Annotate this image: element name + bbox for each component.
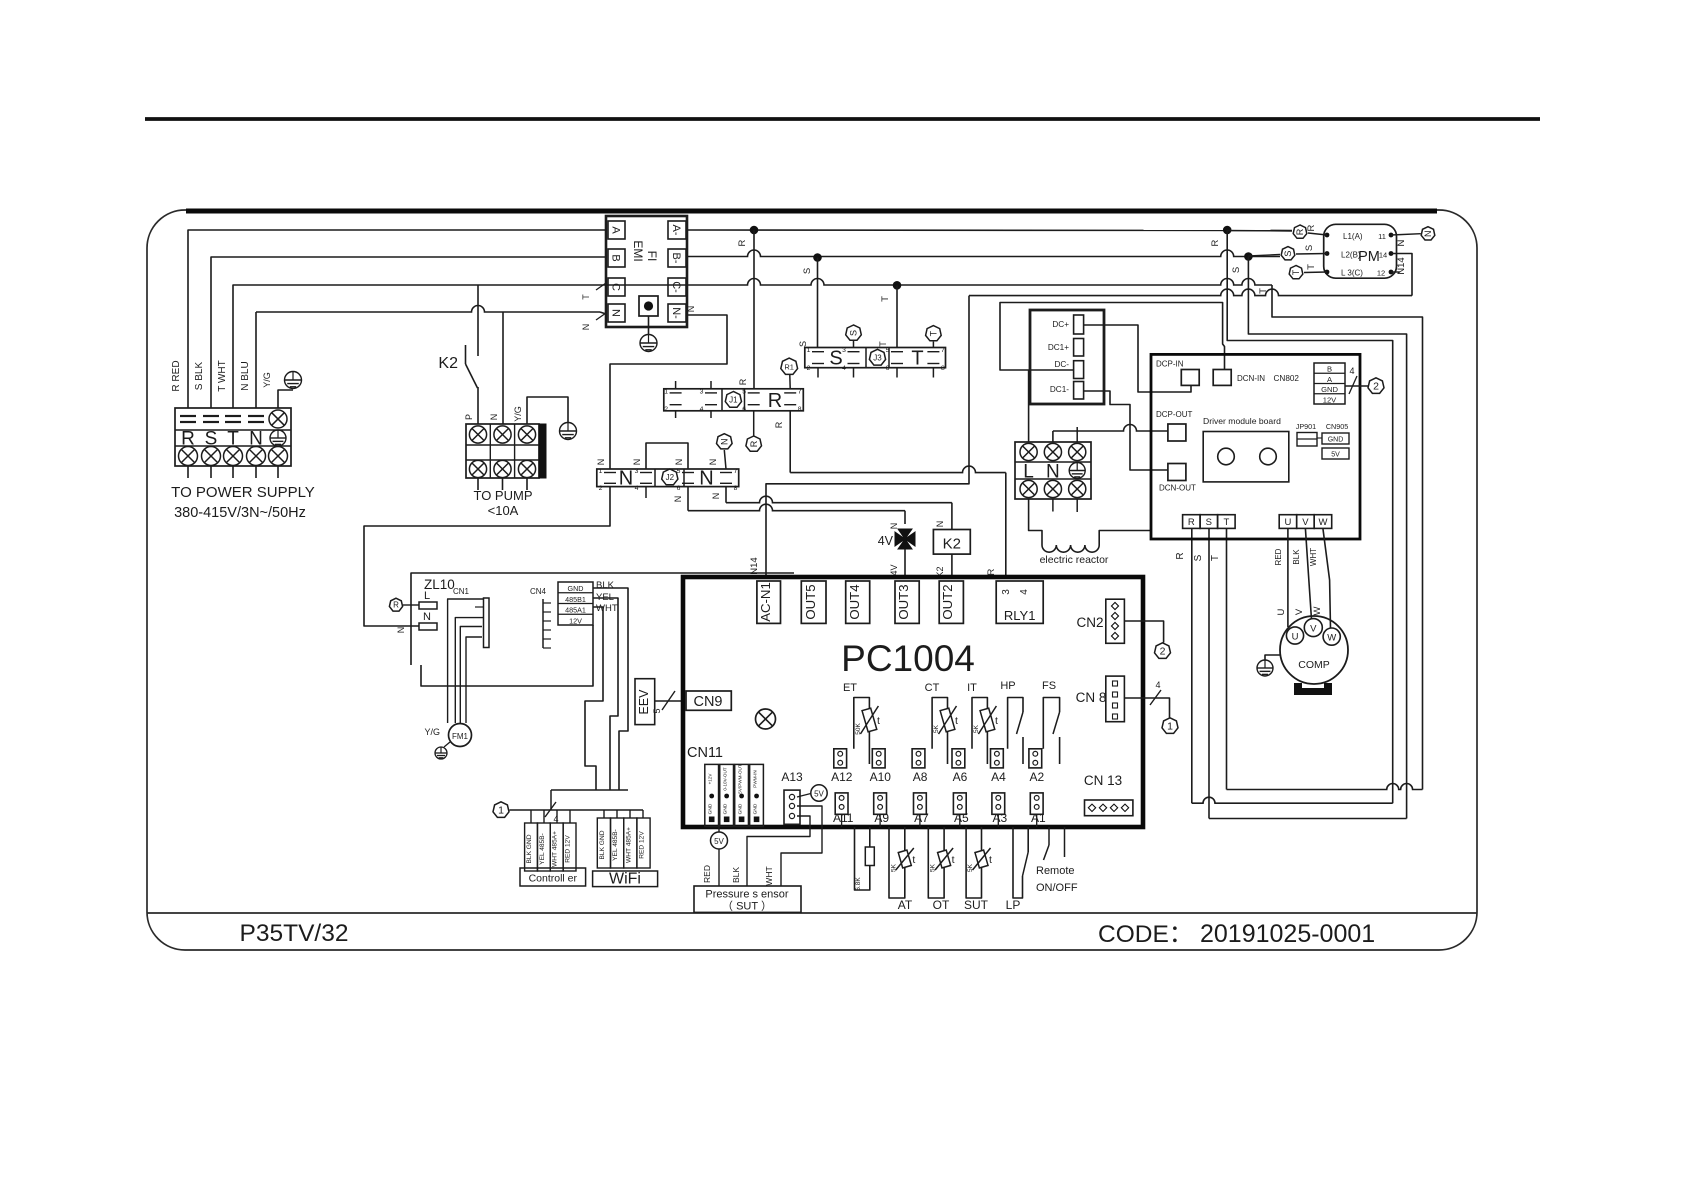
svg-text:N: N bbox=[711, 493, 721, 500]
tag S bbox=[1281, 247, 1295, 260]
wire J2 pin8 (N) bbox=[725, 487, 727, 503]
svg-text:ON/OFF: ON/OFF bbox=[1036, 882, 1078, 894]
svg-text:50K: 50K bbox=[855, 723, 862, 735]
svg-text:5V: 5V bbox=[714, 837, 724, 846]
svg-text:RED: RED bbox=[1274, 548, 1283, 565]
slash 5 bbox=[662, 691, 675, 710]
wire CN2 to ref 2 bbox=[1124, 621, 1163, 643]
svg-text:GND: GND bbox=[1321, 385, 1338, 394]
ground PE1 bbox=[285, 372, 302, 389]
wire stubs bottom bbox=[675, 411, 677, 418]
connector OUT5 bbox=[801, 581, 826, 623]
svg-text:6: 6 bbox=[742, 406, 746, 413]
svg-text:t: t bbox=[989, 854, 992, 866]
svg-text:4V: 4V bbox=[889, 564, 899, 575]
top rule line bbox=[145, 117, 1540, 121]
svg-text:DCN-IN: DCN-IN bbox=[1237, 374, 1265, 383]
wire J2 pin2 to ZL10 N bbox=[364, 487, 610, 626]
wire bbox=[187, 466, 189, 478]
svg-text:OUT5: OUT5 bbox=[803, 584, 818, 619]
svg-text:LP: LP bbox=[1006, 898, 1021, 912]
wire S phase bbox=[687, 250, 1280, 256]
svg-text:CT: CT bbox=[925, 682, 940, 694]
svg-text:A: A bbox=[610, 226, 622, 234]
svg-text:12V: 12V bbox=[569, 616, 582, 625]
svg-text:WiFi: WiFi bbox=[609, 871, 641, 888]
svg-text:4: 4 bbox=[635, 485, 639, 492]
wire N bbox=[255, 312, 257, 408]
svg-text:V: V bbox=[1310, 624, 1317, 635]
svg-text:5K: 5K bbox=[933, 724, 940, 733]
svg-text:Y/G: Y/G bbox=[424, 727, 440, 737]
svg-text:A10: A10 bbox=[870, 770, 892, 784]
svg-text:8: 8 bbox=[941, 365, 945, 372]
EMI ground terminal bbox=[639, 296, 658, 316]
svg-text:S: S bbox=[1283, 251, 1293, 257]
svg-text:2: 2 bbox=[599, 485, 603, 492]
svg-text:RLY1: RLY1 bbox=[1004, 608, 1036, 623]
svg-text:8: 8 bbox=[798, 406, 802, 413]
svg-text:W: W bbox=[1312, 606, 1323, 615]
svg-text:5V: 5V bbox=[1331, 452, 1340, 459]
svg-text:N14: N14 bbox=[749, 557, 760, 574]
svg-text:4: 4 bbox=[842, 365, 846, 372]
wire R phase bbox=[687, 229, 1292, 232]
tag R bbox=[389, 598, 402, 611]
svg-text:A5: A5 bbox=[954, 811, 969, 825]
compressor COMP bbox=[1280, 616, 1348, 684]
svg-text:HP: HP bbox=[1000, 680, 1015, 692]
switch LP bbox=[1013, 827, 1023, 898]
svg-text:R: R bbox=[1175, 552, 1186, 559]
svg-text:WHT 485A+: WHT 485A+ bbox=[625, 827, 632, 863]
wire CN8 to ref 1 bbox=[1124, 698, 1169, 718]
connector A7 bbox=[914, 793, 927, 814]
svg-text:A8: A8 bbox=[913, 770, 928, 784]
svg-text:U: U bbox=[1285, 517, 1292, 528]
svg-text:N: N bbox=[489, 414, 499, 421]
svg-text:SUT: SUT bbox=[964, 898, 989, 912]
svg-text:YEL 485B-: YEL 485B- bbox=[539, 833, 546, 865]
svg-text:A1: A1 bbox=[1031, 811, 1046, 825]
svg-text:A3: A3 bbox=[993, 811, 1008, 825]
terminal block L N E bbox=[1015, 442, 1091, 499]
comm bus wire bbox=[510, 809, 644, 811]
svg-text:5: 5 bbox=[677, 468, 681, 475]
wire T bbox=[233, 285, 606, 408]
svg-text:7: 7 bbox=[798, 388, 802, 395]
svg-text:U: U bbox=[1292, 632, 1299, 643]
svg-text:N: N bbox=[889, 523, 899, 530]
svg-text:JP901: JP901 bbox=[1296, 422, 1316, 431]
svg-text:GND: GND bbox=[753, 803, 759, 814]
connector A4 bbox=[991, 749, 1004, 768]
svg-text:2: 2 bbox=[807, 365, 811, 372]
wire DC1- to DCN-OUT bbox=[1084, 391, 1168, 470]
connector AC-N1 bbox=[757, 581, 781, 623]
wire BLK bbox=[593, 588, 628, 790]
svg-text:S: S bbox=[798, 341, 808, 347]
wire R to pin5 bbox=[753, 230, 755, 389]
svg-text:1: 1 bbox=[807, 347, 811, 354]
svg-text:A12: A12 bbox=[831, 770, 853, 784]
terminal DCN-IN bbox=[1213, 370, 1231, 386]
wire pin12 stub bbox=[1391, 271, 1400, 273]
svg-text:A-: A- bbox=[670, 225, 682, 236]
controller pin stubs bbox=[530, 810, 532, 823]
svg-text:CN11: CN11 bbox=[687, 745, 723, 761]
node S junction 2 bbox=[1244, 252, 1253, 261]
lamp symbol bbox=[756, 709, 776, 729]
svg-text:WHT: WHT bbox=[596, 603, 618, 614]
svg-text:B: B bbox=[610, 254, 622, 261]
svg-text:T: T bbox=[929, 330, 939, 336]
svg-text:T: T bbox=[878, 341, 888, 347]
svg-text:R: R bbox=[768, 390, 782, 412]
svg-text:5V/PWM-OUT: 5V/PWM-OUT bbox=[738, 764, 743, 794]
svg-text:R: R bbox=[774, 421, 784, 428]
svg-text:3: 3 bbox=[842, 347, 846, 354]
pressure sensor box bbox=[694, 886, 801, 912]
stub N bottom bbox=[1052, 499, 1054, 512]
svg-text:5K: 5K bbox=[930, 863, 937, 872]
svg-text:AC-N1: AC-N1 bbox=[758, 582, 773, 622]
svg-text:6.8K: 6.8K bbox=[855, 877, 862, 891]
svg-text:N-: N- bbox=[670, 307, 682, 319]
wire 4V to OUT3 bbox=[904, 549, 906, 577]
svg-text:PM: PM bbox=[1358, 249, 1380, 265]
wire S to pin1 bbox=[817, 258, 819, 348]
wire U bbox=[1287, 528, 1289, 627]
wire S down right nest bbox=[1248, 257, 1406, 819]
svg-text:BLK GND: BLK GND bbox=[599, 830, 606, 859]
svg-text:Y/G: Y/G bbox=[513, 406, 523, 422]
svg-text:V: V bbox=[1302, 517, 1309, 528]
wire K2 coil to OUT2 bbox=[951, 554, 953, 577]
wire bbox=[648, 316, 650, 335]
svg-text:R1: R1 bbox=[784, 362, 794, 371]
wire R contactor pin8 out bbox=[789, 411, 791, 473]
connector A3 bbox=[992, 793, 1005, 814]
wire YEL bbox=[593, 598, 618, 790]
connector OUT2 bbox=[939, 581, 963, 623]
pump stubs bbox=[477, 478, 479, 490]
svg-text:CN802: CN802 bbox=[1274, 374, 1300, 383]
wire J2 pin6 (N) bbox=[687, 487, 689, 511]
tag R bbox=[1293, 225, 1307, 238]
svg-text:20191025-0001: 20191025-0001 bbox=[1200, 920, 1375, 948]
5V circle bbox=[811, 785, 827, 801]
ref tag 1 bbox=[493, 802, 509, 818]
wire bbox=[232, 466, 234, 478]
wire stubs row2 to edge bbox=[841, 814, 843, 827]
svg-text:N: N bbox=[396, 627, 406, 634]
wire K2 to T bbox=[477, 285, 479, 356]
svg-text:RED 12V: RED 12V bbox=[565, 835, 572, 863]
connector A11 bbox=[835, 793, 848, 814]
wire stub bbox=[853, 368, 855, 378]
fan wires bbox=[448, 599, 484, 723]
svg-text:BLK: BLK bbox=[596, 580, 615, 591]
svg-text:L: L bbox=[1023, 462, 1034, 483]
connector WiFi bbox=[597, 818, 610, 868]
svg-text:N: N bbox=[1423, 230, 1433, 237]
connector RLY1 bbox=[996, 581, 1043, 623]
svg-text:DCN-OUT: DCN-OUT bbox=[1159, 484, 1196, 493]
svg-text:5K: 5K bbox=[890, 863, 897, 872]
connector CN9 bbox=[686, 691, 731, 710]
sensor SUT bbox=[966, 827, 981, 898]
ground PE2 bbox=[640, 335, 657, 352]
resistor 6.8K bbox=[855, 827, 870, 890]
svg-text:CN9: CN9 bbox=[693, 694, 722, 710]
svg-text:S: S bbox=[829, 348, 842, 370]
svg-text:N: N bbox=[1396, 239, 1407, 246]
svg-text:DC+: DC+ bbox=[1052, 320, 1069, 329]
ref tag 2 bbox=[1155, 643, 1171, 659]
svg-text:DC-: DC- bbox=[1054, 360, 1069, 369]
svg-text:B-: B- bbox=[670, 253, 682, 264]
svg-text:Controll er: Controll er bbox=[529, 873, 578, 885]
svg-text:J1: J1 bbox=[729, 396, 738, 405]
svg-text:4: 4 bbox=[700, 406, 704, 413]
svg-text:OUT4: OUT4 bbox=[847, 584, 862, 619]
svg-text:4: 4 bbox=[1019, 589, 1030, 595]
svg-text:N: N bbox=[610, 309, 622, 317]
svg-text:t: t bbox=[952, 854, 955, 866]
svg-text:GND: GND bbox=[1328, 437, 1344, 444]
svg-text:OUT2: OUT2 bbox=[940, 584, 955, 619]
node S junction bbox=[813, 253, 822, 262]
svg-text:N: N bbox=[720, 438, 730, 445]
svg-text:N: N bbox=[674, 459, 684, 466]
svg-text:t: t bbox=[912, 854, 915, 866]
stub pin4 bbox=[645, 487, 647, 498]
5V circle below bbox=[711, 832, 728, 849]
svg-text:N: N bbox=[423, 611, 431, 623]
electric reactor coil bbox=[1042, 545, 1099, 552]
svg-text:K2: K2 bbox=[943, 536, 961, 553]
wire Y/G to ground bbox=[278, 390, 293, 408]
bus upper wire bbox=[551, 789, 628, 791]
ground FM1 bbox=[435, 747, 447, 759]
node T junction bbox=[893, 281, 902, 290]
svg-text:2: 2 bbox=[1373, 381, 1379, 393]
wire bbox=[210, 466, 212, 478]
svg-text:+12V: +12V bbox=[708, 773, 713, 785]
terminal block XT1 TO POWER SUPPLY bbox=[175, 408, 291, 466]
EMI filter FI bbox=[606, 216, 687, 327]
svg-text:485B1: 485B1 bbox=[565, 595, 586, 604]
sensor AT bbox=[889, 827, 905, 898]
valve EEV bbox=[635, 679, 655, 725]
svg-text:FI: FI bbox=[645, 251, 659, 262]
ref tag 1b bbox=[1162, 718, 1178, 734]
connector OUT4 bbox=[846, 581, 870, 623]
svg-text:N BLU: N BLU bbox=[240, 361, 251, 390]
svg-text:TO PUMP: TO PUMP bbox=[474, 488, 533, 503]
tag T bbox=[1289, 266, 1303, 279]
svg-text:R: R bbox=[749, 440, 759, 447]
svg-text:RED 12V: RED 12V bbox=[639, 831, 646, 859]
svg-text:CN2: CN2 bbox=[1076, 615, 1103, 630]
svg-text:3: 3 bbox=[700, 388, 704, 395]
svg-text:N: N bbox=[1046, 462, 1060, 483]
svg-text:PC1004: PC1004 bbox=[841, 638, 975, 679]
svg-text:J2: J2 bbox=[666, 473, 675, 482]
diagram border bbox=[147, 210, 1477, 950]
wire T bottom return bbox=[1227, 784, 1423, 790]
connector A8 bbox=[912, 749, 925, 768]
svg-text:Remote: Remote bbox=[1036, 865, 1075, 877]
wire L to reactor bbox=[1029, 499, 1042, 545]
svg-text:N: N bbox=[596, 459, 606, 466]
tick T input bbox=[596, 283, 606, 290]
svg-text:P35TV/32: P35TV/32 bbox=[240, 920, 349, 947]
svg-text:0-10V-OUT: 0-10V-OUT bbox=[723, 767, 728, 790]
wire stub bbox=[932, 368, 934, 378]
svg-text:FS: FS bbox=[1042, 680, 1056, 692]
svg-text:T WHT: T WHT bbox=[217, 360, 228, 391]
wire WHT bbox=[585, 607, 603, 790]
svg-text:4: 4 bbox=[1155, 680, 1160, 690]
wire N14 from PM bbox=[969, 289, 1412, 296]
svg-text:K2: K2 bbox=[438, 355, 458, 372]
svg-text:t: t bbox=[877, 715, 880, 727]
svg-text:CN 8: CN 8 bbox=[1076, 690, 1107, 705]
sensor OT bbox=[928, 827, 944, 898]
svg-text:12: 12 bbox=[1377, 269, 1385, 278]
svg-text:AT: AT bbox=[898, 898, 913, 912]
wire V bbox=[1305, 528, 1311, 619]
svg-text:CN905: CN905 bbox=[1326, 422, 1348, 431]
wire N up to DCP-OUT bbox=[1052, 431, 1054, 442]
contactor J1 R block bbox=[664, 389, 804, 411]
svg-text:1: 1 bbox=[599, 468, 603, 475]
svg-text:OT: OT bbox=[933, 898, 950, 912]
svg-text:B: B bbox=[1327, 365, 1332, 374]
svg-text:1: 1 bbox=[498, 805, 504, 817]
svg-text:N: N bbox=[581, 324, 591, 331]
svg-text:BLK: BLK bbox=[1292, 549, 1301, 565]
wire K2 to pump P bbox=[477, 387, 479, 424]
svg-text:S: S bbox=[849, 330, 859, 336]
svg-text:380-415V/3N~/50Hz: 380-415V/3N~/50Hz bbox=[174, 505, 306, 521]
COMP base bbox=[1294, 688, 1332, 695]
svg-text:14: 14 bbox=[1379, 251, 1387, 260]
svg-text:FM1: FM1 bbox=[452, 732, 469, 741]
svg-text:N: N bbox=[935, 521, 945, 528]
svg-text:R: R bbox=[1306, 224, 1317, 231]
svg-text:R: R bbox=[1210, 239, 1221, 246]
svg-text:S: S bbox=[1193, 554, 1204, 561]
wire W bbox=[1323, 528, 1331, 628]
svg-text:V: V bbox=[1294, 608, 1305, 615]
wire EMI N- to J2 pin1 bbox=[610, 315, 727, 469]
svg-text:R: R bbox=[393, 601, 399, 610]
svg-text:GND: GND bbox=[738, 803, 744, 814]
wire 12V bbox=[421, 625, 593, 686]
svg-text:485A1: 485A1 bbox=[565, 606, 586, 615]
svg-text:2: 2 bbox=[1160, 646, 1166, 658]
svg-text:J3: J3 bbox=[873, 353, 882, 362]
svg-text:<10A: <10A bbox=[488, 503, 519, 518]
svg-text:R: R bbox=[737, 239, 748, 246]
terminal DCN-OUT bbox=[1168, 464, 1186, 481]
connector A10 bbox=[872, 749, 885, 768]
svg-text:A6: A6 bbox=[953, 770, 968, 784]
svg-text:11: 11 bbox=[1378, 232, 1386, 241]
wire DC- to DCN-IN bbox=[1000, 303, 1225, 371]
module ZL10 bbox=[411, 573, 794, 665]
connector A1 bbox=[1030, 793, 1043, 814]
bus slash 4 bbox=[545, 802, 556, 817]
svg-text:R: R bbox=[1295, 228, 1305, 235]
svg-text:A9: A9 bbox=[874, 811, 889, 825]
svg-text:P: P bbox=[464, 414, 474, 420]
svg-text:N: N bbox=[619, 468, 633, 490]
connector A6 bbox=[952, 749, 965, 768]
svg-text:A4: A4 bbox=[991, 770, 1006, 784]
svg-text:5K: 5K bbox=[973, 724, 980, 733]
fan motor FM1 bbox=[449, 724, 472, 747]
svg-text:S: S bbox=[1304, 245, 1315, 251]
wire S to driver terminal bbox=[1208, 528, 1210, 819]
wire bbox=[255, 466, 257, 478]
relay coil K2 bbox=[933, 530, 970, 555]
wire R bbox=[188, 230, 606, 408]
connector A12 bbox=[834, 749, 847, 768]
COMP ground bbox=[1265, 655, 1281, 660]
svg-text:W: W bbox=[1327, 633, 1336, 644]
wire CN802 to ref 2 bbox=[1345, 385, 1368, 387]
board PC1004 bbox=[683, 577, 1143, 827]
wire pump N bbox=[502, 312, 504, 424]
svg-text:3: 3 bbox=[1001, 589, 1012, 595]
svg-text:GND: GND bbox=[723, 803, 729, 814]
svg-text:t: t bbox=[955, 715, 958, 727]
svg-text:PWM-IN: PWM-IN bbox=[753, 770, 758, 787]
svg-text:YEL 485B-: YEL 485B- bbox=[612, 829, 619, 861]
svg-text:GND: GND bbox=[568, 584, 584, 593]
contactor J3 S/T block bbox=[805, 348, 946, 368]
svg-text:Y/G: Y/G bbox=[262, 372, 272, 388]
svg-text:GND: GND bbox=[708, 803, 714, 814]
svg-text:C-: C- bbox=[670, 281, 682, 293]
svg-text:6: 6 bbox=[677, 485, 681, 492]
svg-text:RED: RED bbox=[702, 865, 712, 883]
svg-text:S: S bbox=[802, 268, 813, 274]
svg-text:5: 5 bbox=[886, 347, 890, 354]
svg-text:L1(A): L1(A) bbox=[1343, 232, 1363, 241]
wire EEV to CN9 bbox=[655, 700, 684, 702]
svg-text:N: N bbox=[673, 496, 683, 503]
svg-text:COMP: COMP bbox=[1298, 659, 1330, 671]
connector A2 bbox=[1029, 749, 1042, 768]
svg-text:N: N bbox=[708, 459, 718, 466]
svg-text:S: S bbox=[1206, 517, 1212, 528]
ground PE3 bbox=[560, 423, 577, 440]
wire pin14 N14 bbox=[1391, 254, 1412, 296]
svg-text:EMI: EMI bbox=[631, 240, 645, 261]
svg-text:4: 4 bbox=[1349, 366, 1354, 376]
DC terminal block bbox=[1030, 310, 1104, 404]
wire N14 down bbox=[766, 296, 969, 577]
wire DC+ to DCP-IN bbox=[1084, 325, 1191, 392]
driver inner module bbox=[1203, 432, 1289, 482]
wire bbox=[277, 466, 279, 478]
wire T to right nest bbox=[1272, 285, 1423, 790]
